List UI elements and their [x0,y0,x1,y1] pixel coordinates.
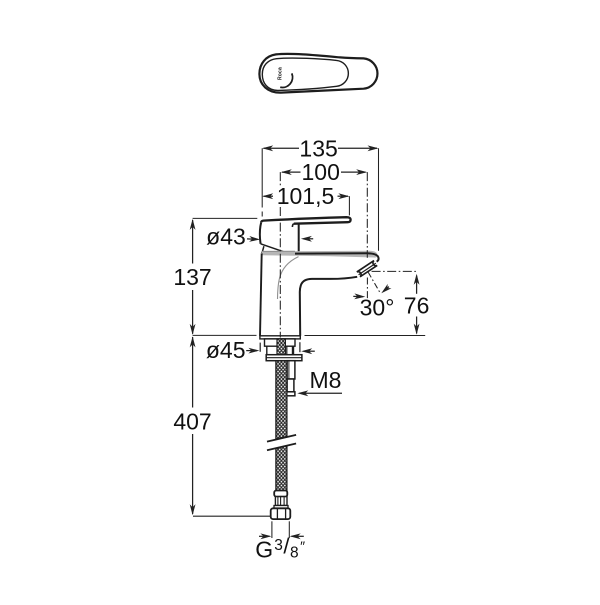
handle base left wedge edge [262,246,264,253]
main axis centerline upper [279,172,281,185]
M8 stud lower section [287,379,294,392]
dim phi45 tick left [259,343,261,352]
dim 135 line [264,147,300,149]
svg-text:101,5: 101,5 [277,183,335,209]
handle body left edge [260,222,261,244]
top view handle inner contour [262,58,348,90]
outlet angle axis dash line [368,272,380,293]
svg-text:ø43: ø43 [206,224,246,250]
dim G3/8 left extension [271,521,273,538]
dim phi45 tick right [299,342,301,352]
top view decorative arc on handle [280,73,292,87]
handle base bottom slant [261,244,288,253]
outlet axis centerline lower [366,278,368,299]
hose break slash lower [267,444,296,451]
body top gray band [262,251,378,258]
dim 30deg angled arrow [383,287,389,292]
hose crimp neck [275,497,287,506]
shank hose hatch [277,339,285,355]
tailpiece step 1 [265,339,296,346]
tailpiece step 2 [267,346,293,355]
outlet level dash-dot line [372,270,418,272]
dim 135 left extension [261,148,263,207]
dim M8 arrow [300,392,343,394]
dim 101,5 line [264,195,274,197]
mounting flange [266,355,302,361]
main axis centerline [279,207,281,338]
spout top edge [295,253,379,261]
svg-text:137: 137 [173,264,211,290]
svg-text:M8: M8 [310,367,342,393]
aerator outlet capsule [357,261,377,277]
aerator middle line [359,263,376,274]
dim phi43 arrow right [304,238,314,240]
body top thin line left part [262,250,295,252]
dim phi43 arrow left [247,238,258,241]
hose end collar [274,491,287,497]
svg-text:76: 76 [404,293,430,319]
flexible hose upper section [276,361,287,439]
flexible hose lower section [276,446,287,491]
column left edge [260,253,262,335]
dim 76 bottom extension [305,335,426,337]
svg-text:Roca: Roca [278,67,284,80]
dim 76 line [416,276,418,294]
dim 135 right extension [378,148,380,251]
M8 tube upper lines [286,346,288,355]
dim 101,5 right extension [348,196,350,215]
dim 30deg horizontal arrow [353,295,363,297]
dim G3/8 arrow right [292,535,304,537]
dim 407 line [192,337,194,408]
faucet lever top (front view) [261,217,350,224]
dim G3/8 arrow left [259,535,270,537]
M8 stud foot [286,392,295,396]
body reflection curve [278,257,299,299]
cartridge neck right edge [298,224,300,253]
hose break slash upper [267,435,296,442]
dim 100 line [282,171,301,173]
outlet axis centerline upper [366,172,368,258]
svg-text:100: 100 [302,159,340,185]
base band [260,336,300,339]
lever underside hook [292,224,293,227]
dim 137 top extension [193,217,258,219]
M8 stud upper section [287,361,295,379]
dim 137/407 shared extension [193,334,257,336]
top view handle outline [259,54,377,93]
svg-text:135: 135 [299,136,337,162]
dim phi45 arrow left [246,350,257,352]
spout underside curve into column [300,277,357,336]
dim G3/8 right extension [288,521,290,538]
dim phi45 arrow right [304,350,315,352]
dim 407 bottom extension [193,515,271,517]
nut top band [274,506,288,509]
svg-text:407: 407 [173,409,211,435]
dim 137 line [192,220,194,264]
svg-text:ø45: ø45 [206,337,246,363]
svg-text:30°: 30° [360,294,395,320]
G3/8 hex nut [271,508,291,519]
